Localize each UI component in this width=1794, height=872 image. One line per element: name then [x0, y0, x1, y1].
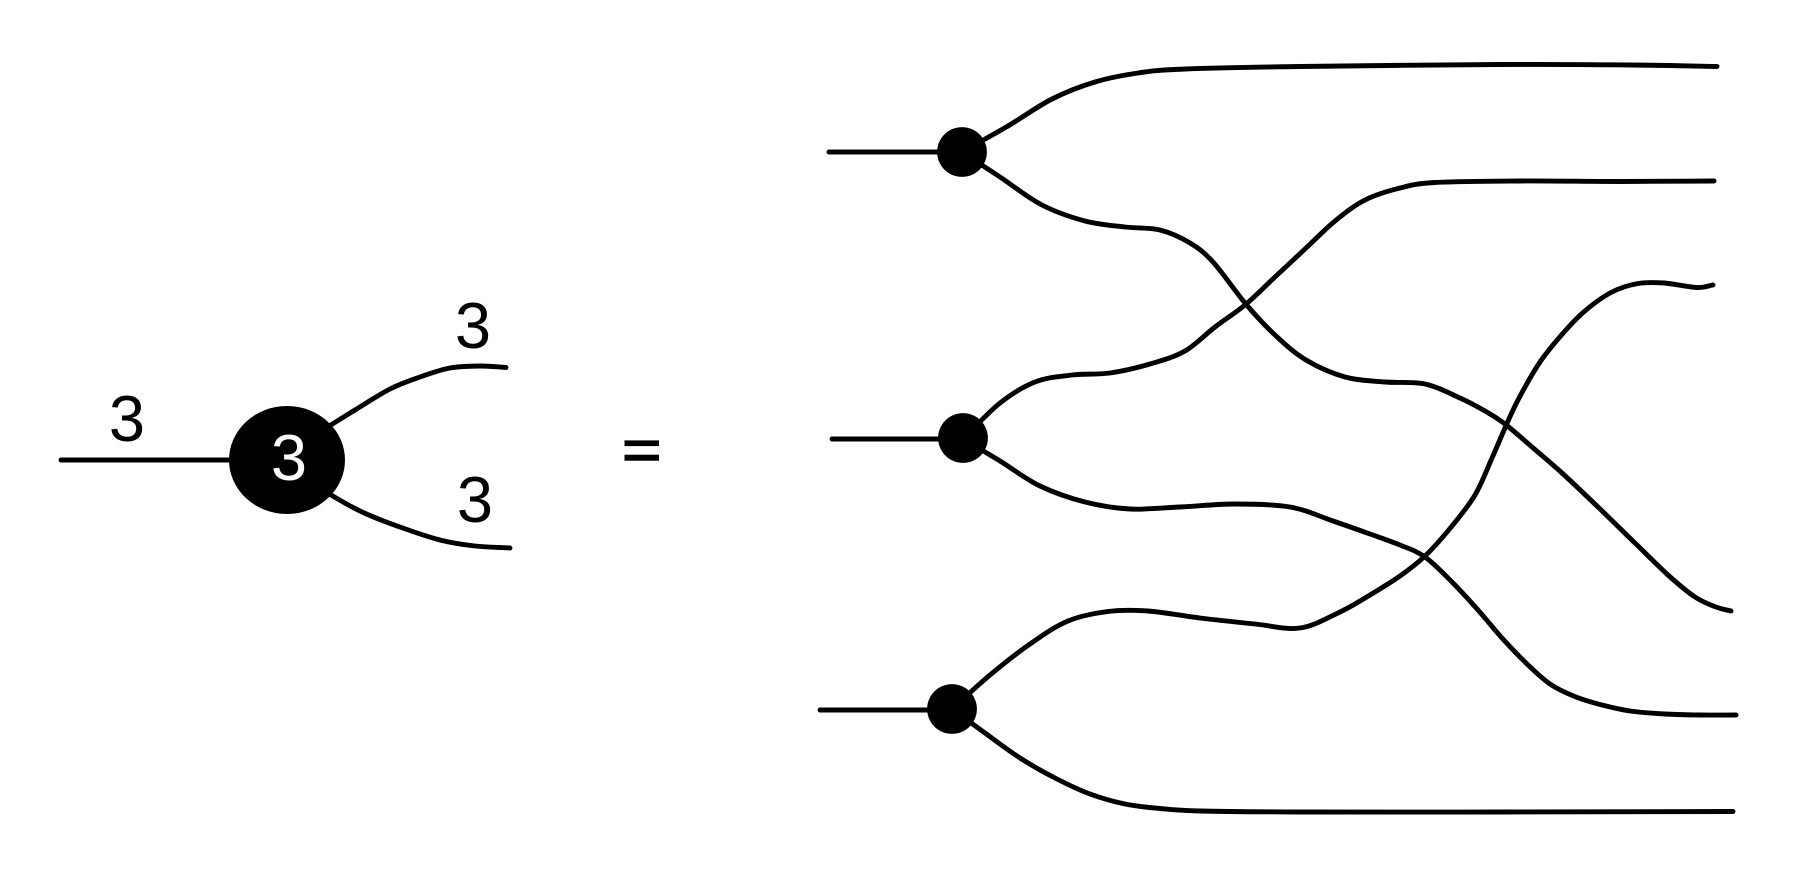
- wire lower output (left diagram): [300, 472, 510, 548]
- svg-text:3: 3: [271, 421, 307, 494]
- wire D1 second output to terminal 4: [962, 152, 1731, 611]
- svg-text:3: 3: [457, 463, 493, 536]
- svg-text:3: 3: [455, 289, 491, 362]
- wire D3 second output to terminal 6: [952, 709, 1733, 812]
- wire D1 first output to terminal 1: [962, 64, 1717, 152]
- equals sign: [625, 440, 660, 446]
- wire input to dot D1: [829, 150, 962, 155]
- wire input to dot D2: [832, 437, 963, 442]
- wire D2 first output to terminal 2: [963, 181, 1714, 439]
- spider node S1 (big black circle labelled 3): [229, 406, 345, 514]
- wire input 3-wire (left diagram): [61, 458, 240, 463]
- wire upper output (left diagram): [300, 366, 506, 447]
- dot D3: [927, 684, 977, 734]
- wire D3 first output to terminal 3: [952, 282, 1713, 709]
- dot D2: [938, 413, 988, 463]
- wire input to dot D3: [820, 708, 952, 713]
- dot D1: [937, 127, 987, 177]
- wire D2 second output to terminal 5: [963, 439, 1736, 715]
- svg-text:3: 3: [109, 382, 145, 455]
